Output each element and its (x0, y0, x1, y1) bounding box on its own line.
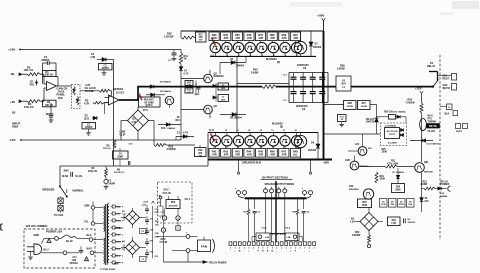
svg-text:47Ω10W: 47Ω10W (169, 204, 179, 207)
svg-text:100K: 100K (362, 205, 368, 207)
svg-text:10.5Ω: 10.5Ω (62, 175, 69, 178)
scan artifact left-edge bracket (1, 224, 3, 230)
connector jack to CH1 lower (58, 203, 63, 211)
svg-text:R48: R48 (293, 149, 298, 153)
svg-text:R42: R42 (223, 149, 228, 153)
rectifier input wires (121, 214, 126, 251)
resistor R29 150 and diode D10 (377, 111, 407, 123)
speaker line to relay thick (351, 86, 433, 88)
svg-text:BLK: BLK (87, 234, 92, 237)
secondary tap VIO (111, 261, 121, 264)
capacitor C1 680PF feedback (42, 55, 57, 71)
resistor R40 .47R emitter bank1 (290, 31, 300, 42)
wire bus to pilot (324, 133, 381, 135)
zobel cap right (302, 198, 310, 241)
connector CH2 WHT (443, 84, 457, 91)
wire +in (40, 88, 47, 101)
svg-text:W-1%: W-1% (76, 175, 83, 178)
svg-text:D9 6.2V: D9 6.2V (366, 119, 375, 121)
svg-text:R26: R26 (408, 99, 413, 102)
switch SW2 bottom (63, 251, 79, 255)
svg-text:!: ! (49, 239, 50, 243)
svg-text:!: ! (86, 257, 87, 261)
transistor Q21 MPSU05 (415, 162, 434, 173)
protection diode row D5 (389, 199, 397, 208)
capacitor C8-2 (300, 73, 306, 87)
supply cap C2D (145, 238, 154, 246)
driver transistor Q-19 bank2 (294, 133, 306, 160)
protection diode row Z4 (380, 199, 388, 208)
fuse F1 5AMP (104, 177, 115, 186)
svg-text:WHT-B: WHT-B (443, 88, 451, 90)
+95V rail bank1 (181, 30, 324, 32)
resistor R2 10K-1% (43, 100, 57, 107)
svg-text:R19: R19 (198, 150, 203, 152)
transistor Q-5 MJ15023 bank1 (257, 42, 267, 57)
svg-text:220/25: 220/25 (102, 68, 110, 70)
resistor R25 100K (382, 149, 388, 154)
svg-text:5AMP: 5AMP (109, 182, 116, 185)
capacitor C8-4 (319, 73, 325, 87)
svg-text:CLIP: CLIP (120, 133, 126, 137)
svg-text:2U4: 2U4 (341, 83, 346, 86)
resistor R8 220-1% vertical (103, 140, 116, 150)
inductor L3A box (252, 233, 270, 242)
resistor R42 .47R emitter bank2 (221, 146, 231, 157)
svg-text:R36: R36 (247, 33, 252, 37)
secondary tap YEL (111, 212, 121, 215)
transistor Q-16 MJ15022 bank2 (268, 130, 278, 149)
+95V supply arrow (317, 14, 325, 32)
transformer primary winding A (104, 206, 105, 232)
label INPUT GND (12, 111, 21, 129)
switch SW2 top (55, 237, 61, 241)
svg-text:.47R: .47R (211, 153, 217, 157)
svg-text:CH2: CH2 (443, 84, 449, 87)
svg-text:220/10V: 220/10V (408, 222, 416, 224)
thermistor R5A NTC box (139, 97, 161, 112)
transistor Q-15 MJ15022 bank2 (257, 130, 267, 149)
svg-text:MUTE: MUTE (429, 124, 437, 128)
svg-text:-: - (241, 187, 242, 190)
resistor R28 10/2W (344, 101, 357, 110)
label POWER 15A (46, 230, 62, 234)
op-amp U1-A (47, 82, 59, 91)
svg-text:Q21: Q21 (424, 162, 429, 164)
connector D/B box (440, 104, 452, 110)
svg-text:+IN: +IN (10, 100, 15, 104)
secondary tap RED (111, 205, 121, 208)
svg-text:CH 1: CH 1 (185, 197, 191, 201)
transformer primary winding B (104, 238, 105, 264)
svg-text:330K: 330K (380, 179, 386, 181)
trimmer VR1 (30, 80, 38, 87)
svg-text:10-30: 10-30 (381, 204, 387, 206)
svg-text:Q-11: Q-11 (209, 130, 215, 132)
+15V arrow right section (415, 87, 423, 103)
svg-text:R18: R18 (169, 145, 174, 148)
svg-text:10K-1%: 10K-1% (45, 75, 53, 77)
supply bottom label (100, 269, 115, 271)
thermal switch 84C CUT-IN (160, 238, 168, 244)
warning triangle 1 (47, 239, 51, 244)
svg-text:220 W-1%: 220 W-1% (114, 172, 124, 174)
resistor R23 43/3W relay feed (421, 180, 450, 190)
svg-text:R19: R19 (380, 176, 385, 178)
svg-text:A-12MM: A-12MM (388, 142, 397, 145)
svg-text:BLU: BLU (44, 249, 49, 252)
svg-text:T1 PWR XFMR: T1 PWR XFMR (100, 269, 115, 271)
thermal terminal circle 1 (162, 209, 166, 221)
svg-text:L20: L20 (355, 144, 360, 146)
bank2 top bus (208, 132, 318, 134)
binding post 3 (277, 187, 281, 193)
label 120 VAC WIRING (26, 224, 48, 228)
capacitor C12 220/10V (404, 218, 416, 224)
transistor Q3 MJE230A (181, 105, 217, 118)
supply output arrows (157, 202, 163, 249)
svg-text:CH-2: CH-2 (285, 228, 291, 230)
mute connector boxes right edge (456, 124, 468, 134)
svg-text:PILOT: PILOT (389, 134, 396, 136)
diode D16 1N4004 relay (435, 186, 451, 198)
svg-text:20K: 20K (58, 96, 63, 100)
resistor R34 .47R emitter bank1 (221, 31, 231, 42)
aux terminal circle F2A (161, 220, 165, 232)
resistor R50 47R 10W (166, 196, 180, 209)
svg-text:R35: R35 (235, 33, 240, 37)
feedback line thin (138, 86, 237, 88)
svg-text:1K: 1K (177, 117, 180, 119)
svg-text:REG: REG (114, 264, 119, 266)
resistor R46 .47R emitter bank2 (267, 146, 277, 157)
resistor R27 10/2W (358, 101, 377, 110)
diode D6 bias (146, 90, 171, 97)
resistor R44 .47R emitter bank2 (244, 146, 254, 157)
supply cap C2C (145, 227, 154, 235)
wire +95 to R28 (324, 104, 345, 106)
svg-text:RELAY: RELAY (427, 64, 436, 68)
red pen mark bank2 (211, 134, 215, 142)
transistor Q17 (348, 134, 372, 155)
wire cluster verticals (196, 81, 216, 102)
supply extra labels (114, 211, 165, 266)
speaker line thick left segment (237, 86, 262, 88)
resistor R52 2.2K/1W (164, 31, 196, 39)
svg-text:1N4004: 1N4004 (440, 195, 448, 198)
label CH 1 (185, 197, 191, 201)
label CH-1 (262, 228, 268, 230)
terminal WHT (87, 247, 100, 254)
svg-text:10/2W: 10/2W (347, 106, 354, 108)
svg-text:L3A: L3A (265, 236, 269, 239)
transistor Q18 MPSU06 (345, 155, 369, 170)
relay K1 (427, 61, 439, 88)
label Q-11 (209, 130, 215, 132)
label MJ15022 (8) (272, 122, 283, 129)
svg-text:100K: 100K (382, 152, 388, 154)
transistor Q-12 MJ15022 bank2 (222, 130, 232, 149)
svg-text:.47R: .47R (281, 36, 287, 40)
terminal YEL primary (84, 209, 104, 225)
svg-text:C1B: C1B (155, 233, 160, 235)
svg-text:MPSU05: MPSU05 (424, 171, 434, 173)
svg-text:(8): (8) (277, 61, 280, 64)
svg-text:OUTPUT SECTION: OUTPUT SECTION (262, 175, 288, 179)
node -IN input (10, 72, 27, 76)
transistor Q-17 MJ15022 bank2 (280, 130, 290, 149)
scan artifact top-middle (290, 2, 342, 7)
svg-text:PTC: PTC (428, 118, 433, 120)
red pen mark near feedback corner (139, 94, 142, 101)
svg-text:22NF: 22NF (117, 157, 123, 159)
svg-text:BLK: BLK (445, 113, 450, 115)
secondary tap ORG (111, 219, 122, 222)
capacitor C9-3 (310, 87, 316, 103)
svg-text:10/2W: 10/2W (361, 106, 368, 108)
resistor RW1 10.5 W-1% (62, 170, 83, 178)
secondary tap GRY (111, 233, 122, 236)
svg-text:.47R: .47R (293, 36, 299, 40)
resistor R48 .47R emitter bank2 (290, 146, 300, 157)
svg-text:.47R: .47R (235, 153, 241, 157)
label 55C CUT-IN (163, 189, 171, 195)
transistor Q-11 MJ15022 bank2 (210, 133, 220, 149)
terminal strip row (229, 242, 316, 246)
svg-text:CH1: CH1 (443, 75, 449, 78)
bank1 collector bus (210, 55, 316, 57)
zener Z6 0.7V (179, 50, 189, 141)
AC plug (27, 244, 42, 257)
svg-text:SW1: SW1 (64, 170, 70, 173)
svg-text:1N4004: 1N4004 (167, 127, 175, 130)
title OUTPUT SECTION (261, 175, 293, 179)
diode D14 1N4004 (410, 139, 440, 146)
svg-text:1N5402: 1N5402 (313, 46, 322, 49)
resistor R21 4.7K 1/2W (359, 160, 414, 168)
resistor R45 .47R emitter bank2 (255, 146, 265, 157)
bridge B1 line clip (128, 110, 149, 131)
resistor R37 .47R emitter bank1 (255, 31, 265, 42)
ground C2 (49, 120, 54, 122)
svg-text:+95V: +95V (317, 14, 325, 18)
binding post 1 (264, 187, 268, 193)
svg-text:MUTE: MUTE (456, 131, 463, 133)
thermal switch CH1 (159, 195, 162, 206)
transformer T1 core (105, 204, 107, 265)
svg-text:B5: B5 (12, 111, 16, 115)
svg-text:.47R: .47R (235, 36, 241, 40)
secondary tap BLK (111, 226, 121, 229)
svg-text:R24: R24 (392, 219, 397, 222)
svg-text:7.5K/2W: 7.5K/2W (406, 103, 416, 105)
pot 2 in jack panel (76, 97, 78, 106)
svg-text:R45: R45 (258, 149, 263, 153)
transistor Q4 bias (165, 96, 173, 108)
red pen mark bank1 (212, 38, 216, 46)
label GRN wire (34, 234, 55, 244)
svg-text:D10 1N4004: D10 1N4004 (393, 111, 406, 114)
svg-text:MPS6560: MPS6560 (349, 189, 359, 191)
supply cap C2B (145, 216, 154, 225)
svg-text:C1A: C1A (155, 208, 160, 211)
svg-text:WHT: WHT (87, 247, 93, 250)
bridge B3 (124, 208, 146, 228)
label LINE CLIP (120, 130, 126, 137)
terminal GRN primary (84, 202, 104, 210)
svg-text:BRIDGED: BRIDGED (43, 187, 55, 191)
svg-text:1N5402: 1N5402 (308, 149, 317, 152)
resistor R13 (185, 81, 193, 87)
protection diode row Z5 (398, 199, 406, 208)
svg-text:220/25: 220/25 (85, 127, 93, 129)
svg-text:D8 1N4004: D8 1N4004 (230, 117, 242, 120)
zener Z3 (15) (84, 114, 98, 121)
svg-text:250VAC: 250VAC (70, 262, 79, 265)
svg-text:.47R: .47R (223, 153, 229, 157)
capacitor C5 220/25 (82, 123, 96, 133)
svg-text:.47R: .47R (258, 36, 264, 40)
node +IN input (10, 100, 27, 104)
vertical feed line x237 (236, 57, 238, 133)
resistor R14 (185, 88, 193, 94)
supply vertical collector (146, 206, 153, 258)
svg-text:R28: R28 (348, 103, 353, 105)
primary bottom connections (99, 232, 104, 253)
svg-text:R25: R25 (382, 149, 387, 151)
svg-text:C2A: C2A (142, 203, 147, 206)
zener D9 6.2V 1N4735 (366, 105, 378, 135)
main +95V vertical bus thick (323, 31, 325, 160)
svg-text:D13: D13 (161, 128, 166, 130)
resistor R36 .47R emitter bank1 (244, 31, 254, 42)
120VAC dashed enclosure (24, 229, 95, 268)
svg-text:22Ω-1%: 22Ω-1% (88, 170, 98, 173)
ground C10 (339, 124, 344, 126)
label -95V (323, 161, 329, 165)
svg-text:TO CH1: TO CH1 (54, 213, 64, 217)
label TO CH1 arrow (54, 211, 64, 217)
right edge dashed boundary (439, 55, 441, 240)
label C9 2000/100V (296, 105, 308, 111)
resistor R35 .47R emitter bank1 (232, 31, 242, 42)
switch SW1 block wire (59, 166, 61, 186)
resistor R38 .47R emitter bank1 (267, 31, 277, 42)
svg-text:R34: R34 (223, 33, 228, 37)
svg-text:1N4735: 1N4735 (366, 121, 375, 124)
svg-text:R23: R23 (423, 181, 428, 183)
gain pot dashed box GAIN CH JACK PANEL 20K (57, 85, 81, 109)
svg-text:F3: F3 (142, 259, 144, 261)
thermistor PTC mute (420, 115, 436, 130)
capacitor C9-2 (300, 87, 306, 103)
svg-text:SC-02: SC-02 (66, 241, 73, 243)
ground C5 (86, 133, 91, 135)
svg-text:.47R: .47R (258, 153, 264, 157)
speaker bus stub to right post (310, 161, 312, 175)
svg-text:1/2 IC1: 1/2 IC1 (116, 91, 125, 95)
resistor R10 1K (176, 117, 181, 122)
speaker bus stub to left post (238, 161, 240, 175)
scan artifact top-right (440, 1, 479, 15)
switch SW-1 blade (59, 186, 68, 198)
svg-text:.47R: .47R (270, 153, 276, 157)
bridge B4 (124, 237, 146, 258)
svg-text:N0°C: N0°C (428, 115, 434, 117)
secondary tap BLU (111, 254, 121, 257)
thermal breaker SC-02 (61, 235, 89, 243)
svg-text:R21: R21 (391, 160, 396, 162)
transistor Q-7 MJ15023 bank1 (280, 42, 290, 57)
label BLK right edge (445, 111, 458, 116)
svg-text:(15): (15) (91, 55, 96, 59)
svg-text:@25°C: @25°C (145, 105, 153, 107)
svg-text:THERM: THERM (428, 121, 436, 123)
transistor Q-3 MJ15023 bank1 (233, 42, 243, 57)
svg-text:BI-COLOR: BI-COLOR (387, 131, 398, 133)
zener Z4 (15) top (91, 52, 114, 62)
svg-text:RED-T: RED-T (443, 79, 451, 81)
svg-text:4.7K: 4.7K (84, 102, 90, 106)
label R5 4.7K (84, 99, 109, 106)
resistor R26 7.5K/2W vertical (406, 99, 424, 162)
svg-text:(15): (15) (84, 117, 89, 121)
resistor R22 100K box (358, 199, 372, 208)
svg-text:R44: R44 (247, 149, 252, 153)
svg-text:.47R: .47R (246, 36, 252, 40)
resistor R1 10K-1% feedback (43, 71, 59, 87)
capacitor C11 .068 250VAC (70, 246, 84, 265)
svg-text:.47R: .47R (281, 153, 287, 157)
speaker line thick mid segment (276, 86, 336, 88)
svg-text:R30: R30 (355, 232, 360, 234)
wire opamp2 output thick (119, 86, 138, 101)
side post right pair (302, 187, 313, 194)
cap bank frame (289, 73, 328, 103)
transistor Q-18 MJ15022 bank2 (291, 130, 301, 149)
zener Z6 24V (420, 172, 429, 212)
svg-text:NORMAL: NORMAL (73, 189, 85, 193)
diode D8 1N4004 (220, 113, 246, 120)
svg-text:R46: R46 (270, 149, 275, 153)
svg-text:R41: R41 (212, 149, 217, 153)
svg-text:680PF: 680PF (42, 58, 50, 62)
resistor R17 120 5W box (196, 32, 207, 42)
svg-text:G1B: G1B (345, 160, 350, 162)
diode D2 1N5402 (309, 31, 322, 56)
supply cap labels (155, 208, 160, 258)
svg-text:GRN: GRN (34, 234, 40, 237)
label R9 under wire (114, 161, 130, 174)
label NORMAL (73, 189, 85, 193)
svg-text:R38: R38 (270, 33, 275, 37)
output coil between (270, 233, 286, 240)
diode D1 1N4004 (220, 56, 246, 74)
resistor R24 1.5K (388, 217, 401, 226)
drop wires from bus (266, 198, 292, 241)
bridge B2 1.5A (350, 207, 383, 234)
svg-text:(8): (8) (280, 126, 283, 129)
svg-text:CH-1: CH-1 (262, 228, 268, 230)
svg-text:-95V: -95V (323, 161, 329, 165)
resistor R47 .47R emitter bank2 (279, 146, 289, 157)
transistor Q-13 MJ15022 bank2 (233, 130, 243, 149)
transistor Q-1 MJ15023 bank1 (210, 42, 220, 56)
wire -in to opamp (40, 74, 47, 84)
svg-text:R20: R20 (396, 186, 401, 188)
zener Z1 4.7V (176, 132, 194, 140)
svg-text:GND: GND (12, 125, 18, 129)
